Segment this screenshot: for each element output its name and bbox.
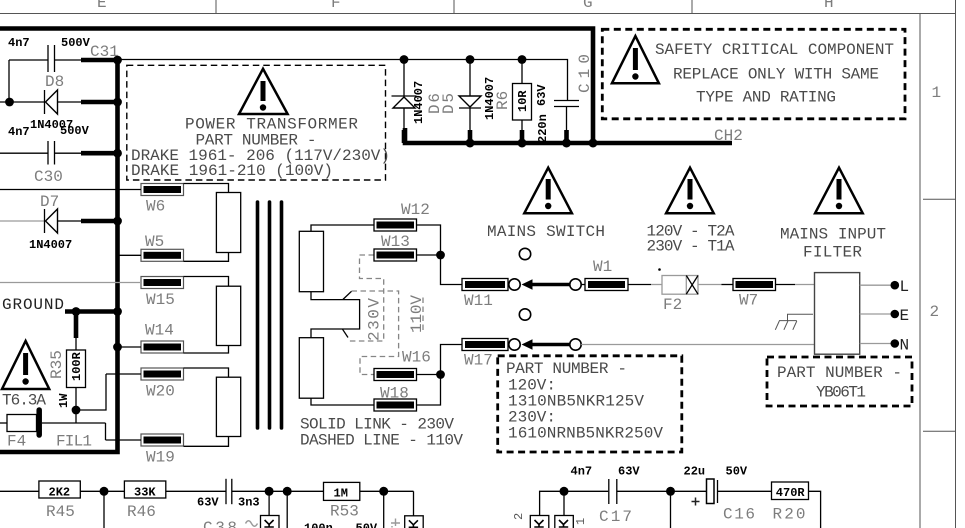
svg-text:L: L [900,278,910,296]
svg-text:W1: W1 [593,258,612,276]
svg-text:2K2: 2K2 [49,486,71,500]
svg-text:W16: W16 [402,349,431,367]
svg-text:230V: 230V [366,298,384,341]
svg-text:SAFETY CRITICAL COMPONENT: SAFETY CRITICAL COMPONENT [655,41,894,59]
svg-text:W6: W6 [146,198,165,216]
svg-text:500V: 500V [60,124,90,138]
svg-text:100R: 100R [70,351,84,381]
svg-text:W20: W20 [146,383,175,401]
svg-text:PART NUMBER -: PART NUMBER - [777,364,902,382]
svg-text:1N4007: 1N4007 [29,238,72,252]
svg-text:PART NUMBER -: PART NUMBER - [506,360,627,378]
svg-text:C30: C30 [34,168,63,186]
svg-text:220n: 220n [536,114,550,143]
svg-text:500V: 500V [61,36,91,50]
svg-text:50V: 50V [726,465,748,479]
svg-text:33K: 33K [134,486,156,500]
svg-text:1N4007: 1N4007 [412,81,426,124]
svg-text:D7: D7 [40,193,59,211]
svg-text:W5: W5 [145,233,164,251]
svg-text:W11: W11 [464,292,493,310]
svg-text:DASHED LINE - 110V: DASHED LINE - 110V [300,432,463,450]
svg-text:CH2: CH2 [714,127,743,145]
svg-text:R53: R53 [330,503,359,521]
svg-text:C31: C31 [90,43,119,61]
svg-text:4n7: 4n7 [8,36,30,50]
svg-text:GROUND: GROUND [2,296,64,314]
svg-text:3n3: 3n3 [238,496,260,510]
svg-text:F: F [331,0,341,12]
svg-text:YB06T1: YB06T1 [816,384,866,402]
svg-text:50V: 50V [356,522,378,528]
svg-text:MAINS SWITCH: MAINS SWITCH [487,223,605,241]
svg-text:1610NRNB5NKR250V: 1610NRNB5NKR250V [508,425,663,443]
svg-text:22u: 22u [684,465,706,479]
svg-text:R45: R45 [46,503,75,521]
svg-text:G: G [583,0,593,12]
svg-text:W13: W13 [381,233,410,251]
svg-text:C10: C10 [576,54,594,93]
svg-text:E: E [900,307,910,325]
svg-text:FILTER: FILTER [803,244,862,262]
svg-text:110V: 110V [408,295,426,333]
svg-text:R35: R35 [48,350,66,379]
svg-text:W7: W7 [739,292,758,310]
svg-text:C16: C16 [723,506,755,524]
svg-text:1W: 1W [57,393,71,408]
svg-text:W14: W14 [145,322,174,340]
svg-text:4n7: 4n7 [8,125,30,139]
svg-text:1M: 1M [334,487,348,501]
svg-text:63V: 63V [618,465,640,479]
svg-text:REPLACE ONLY WITH SAME: REPLACE ONLY WITH SAME [673,66,879,84]
svg-text:230V - T1A: 230V - T1A [647,238,735,256]
svg-text:1: 1 [574,518,588,525]
svg-text:W15: W15 [146,291,175,309]
svg-text:100n: 100n [304,522,333,528]
svg-text:4n7: 4n7 [571,465,593,479]
svg-text:1: 1 [932,84,942,102]
svg-text:N: N [900,337,910,355]
svg-text:MAINS INPUT: MAINS INPUT [780,226,886,244]
svg-text:FIL1: FIL1 [56,433,92,451]
svg-text:R46: R46 [127,503,156,521]
svg-text:F4: F4 [7,433,26,451]
svg-text:E: E [97,0,107,12]
svg-text:10R: 10R [516,90,530,112]
svg-text:D8: D8 [45,73,64,91]
svg-text:DRAKE 1961-210 (100V): DRAKE 1961-210 (100V) [131,162,333,180]
svg-text:470R: 470R [776,486,806,500]
svg-text:H: H [824,0,834,12]
svg-text:R6: R6 [494,91,512,110]
svg-text:C38: C38 [203,519,237,528]
svg-text:63V: 63V [197,496,219,510]
svg-text:2: 2 [512,513,526,520]
svg-text:TYPE AND RATING: TYPE AND RATING [696,89,836,107]
svg-text:W18: W18 [380,385,409,403]
svg-text:W19: W19 [146,449,175,467]
svg-text:T6.3A: T6.3A [2,392,46,410]
svg-text:W17: W17 [464,352,493,370]
svg-text:2: 2 [930,303,940,321]
svg-text:F2: F2 [663,296,682,314]
svg-text:R20: R20 [773,506,806,524]
svg-text:C17: C17 [599,508,632,526]
svg-text:D5: D5 [440,93,458,114]
svg-text:63V: 63V [535,84,549,106]
svg-text:W12: W12 [401,201,430,219]
